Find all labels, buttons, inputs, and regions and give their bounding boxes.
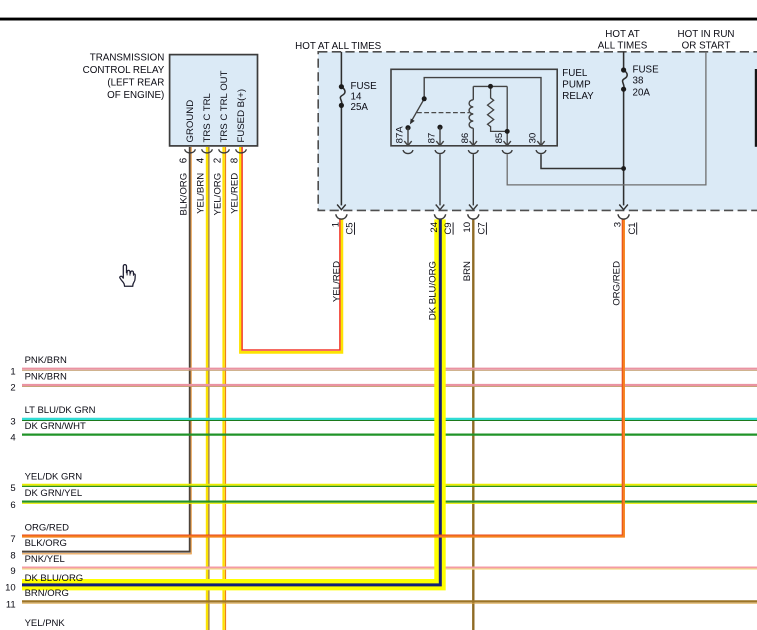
relay K1 fuel pump relay: outline box bbox=[391, 69, 557, 146]
svg-text:OF ENGINE): OF ENGINE) bbox=[107, 90, 164, 101]
relay resistor (parallel with coil) bbox=[488, 86, 508, 145]
svg-text:HOT AT ALL TIMES: HOT AT ALL TIMES bbox=[295, 41, 381, 52]
svg-text:OR START: OR START bbox=[682, 41, 731, 52]
svg-text:4: 4 bbox=[10, 432, 15, 443]
svg-text:DK BLU/ORG: DK BLU/ORG bbox=[428, 261, 439, 320]
mouse cursor (hand pointer) bbox=[120, 265, 135, 287]
wire BRN (connector C7 down off page) bbox=[472, 219, 474, 630]
svg-text:30: 30 bbox=[528, 133, 539, 144]
svg-text:DK BLU/ORG: DK BLU/ORG bbox=[25, 573, 84, 584]
connector 3 C1 bbox=[618, 214, 629, 219]
wire YEL/BRN (pin 4) bbox=[206, 147, 208, 630]
svg-text:DK GRN/WHT: DK GRN/WHT bbox=[25, 421, 86, 432]
svg-text:HOT AT: HOT AT bbox=[605, 29, 639, 40]
wire 4 DK GRN/WHT bbox=[22, 433, 757, 435]
wire: relay pin 85 to HOT IN RUN OR START feed bbox=[507, 52, 706, 185]
wire 11 BRN/ORG bbox=[22, 600, 757, 602]
svg-text:TRS C TRL: TRS C TRL bbox=[202, 92, 213, 142]
svg-text:YEL/DK GRN: YEL/DK GRN bbox=[25, 471, 83, 482]
connector 24 C9 bbox=[434, 214, 445, 219]
svg-text:6: 6 bbox=[179, 157, 190, 163]
svg-text:24: 24 bbox=[429, 221, 440, 232]
svg-text:8: 8 bbox=[10, 551, 15, 562]
svg-text:(LEFT REAR: (LEFT REAR bbox=[107, 78, 164, 89]
svg-text:YEL/RED: YEL/RED bbox=[230, 173, 241, 214]
svg-text:C9: C9 bbox=[443, 222, 454, 234]
relay pin 87A lead bbox=[405, 125, 410, 130]
svg-text:14: 14 bbox=[351, 91, 362, 102]
wire 9 PNK/YEL bbox=[22, 567, 757, 569]
wire 1 PNK/BRN bbox=[22, 368, 757, 370]
svg-text:38: 38 bbox=[633, 76, 644, 87]
svg-text:C5: C5 bbox=[345, 222, 356, 234]
wire YEL/ORG (pin 2) bbox=[222, 147, 224, 630]
svg-text:25A: 25A bbox=[351, 102, 369, 113]
svg-text:ORG/RED: ORG/RED bbox=[612, 261, 623, 306]
connector 1 C5 bbox=[336, 214, 347, 219]
svg-text:YEL/RED: YEL/RED bbox=[332, 261, 343, 302]
svg-text:FUSED B(+): FUSED B(+) bbox=[236, 89, 247, 143]
wire: relay pin 30 to fuse 38 junction bbox=[541, 154, 624, 168]
svg-text:DK GRN/YEL: DK GRN/YEL bbox=[25, 488, 83, 499]
svg-text:3: 3 bbox=[10, 417, 15, 428]
svg-text:8: 8 bbox=[230, 157, 241, 163]
svg-text:87: 87 bbox=[427, 133, 438, 144]
wire 5 YEL/DK GRN bbox=[22, 484, 757, 486]
connector terminals pins 6 4 2 8 bbox=[185, 149, 196, 153]
svg-text:FUSE: FUSE bbox=[351, 81, 378, 92]
svg-text:7: 7 bbox=[10, 534, 15, 545]
svg-text:YEL/ORG: YEL/ORG bbox=[212, 173, 223, 216]
svg-text:85: 85 bbox=[494, 133, 505, 144]
svg-text:2: 2 bbox=[213, 158, 224, 163]
wire 2 PNK/BRN bbox=[22, 384, 757, 386]
svg-text:BLK/ORG: BLK/ORG bbox=[25, 538, 67, 549]
svg-text:1: 1 bbox=[330, 222, 341, 227]
relay pin terminal cups bbox=[403, 150, 413, 153]
svg-text:PUMP: PUMP bbox=[562, 80, 591, 91]
power distribution box (HOT AT ALL TIMES / HOT IN RUN OR START) bbox=[318, 52, 757, 211]
svg-text:CONTROL RELAY: CONTROL RELAY bbox=[83, 65, 165, 76]
svg-text:YEL/PNK: YEL/PNK bbox=[25, 618, 66, 629]
svg-text:LT BLU/DK GRN: LT BLU/DK GRN bbox=[25, 405, 96, 416]
relay pin 30 arrow bbox=[537, 141, 544, 146]
svg-text:GROUND: GROUND bbox=[185, 100, 196, 143]
svg-text:YEL/BRN: YEL/BRN bbox=[196, 173, 207, 214]
wire 6 DK GRN/YEL bbox=[22, 501, 757, 503]
fuse F38 (FUSE 38 20A) bbox=[623, 52, 628, 206]
svg-text:PNK/BRN: PNK/BRN bbox=[25, 355, 67, 366]
svg-text:20A: 20A bbox=[633, 88, 651, 99]
svg-text:C1: C1 bbox=[627, 222, 638, 234]
svg-text:TRANSMISSION: TRANSMISSION bbox=[90, 53, 165, 64]
svg-text:9: 9 bbox=[10, 566, 15, 577]
wire 10 DK BLU/ORG highlighted (connector C9 down and left) bbox=[22, 219, 440, 584]
relay pin 87 lead bbox=[437, 125, 442, 130]
svg-text:FUEL: FUEL bbox=[562, 68, 588, 79]
svg-text:5: 5 bbox=[10, 483, 15, 494]
svg-text:FUSE: FUSE bbox=[633, 65, 660, 76]
svg-text:TRS C TRL OUT: TRS C TRL OUT bbox=[219, 70, 230, 142]
svg-text:ORG/RED: ORG/RED bbox=[25, 522, 69, 533]
svg-text:BLK/ORG: BLK/ORG bbox=[178, 173, 189, 216]
svg-text:BRN/ORG: BRN/ORG bbox=[25, 588, 69, 599]
svg-text:RELAY: RELAY bbox=[562, 91, 594, 102]
svg-text:2: 2 bbox=[10, 383, 15, 394]
svg-text:11: 11 bbox=[6, 600, 16, 611]
svg-text:3: 3 bbox=[613, 222, 624, 227]
fuse F14 (FUSE 14 25A) bbox=[340, 52, 345, 206]
relay actuator dashed link bbox=[417, 112, 469, 114]
svg-text:HOT IN RUN: HOT IN RUN bbox=[678, 29, 735, 40]
svg-text:6: 6 bbox=[10, 500, 15, 511]
svg-text:BRN: BRN bbox=[462, 261, 473, 281]
junction node: pin 30 / fuse 38 bbox=[621, 166, 626, 171]
svg-text:86: 86 bbox=[460, 133, 471, 144]
connector: transmission control relay box bbox=[170, 55, 258, 146]
svg-text:87A: 87A bbox=[395, 126, 406, 144]
relay coil (pins 86-85) bbox=[469, 86, 507, 145]
wire YEL/RED fused B+ (connector C5 to pin 8) bbox=[240, 147, 342, 352]
svg-text:10: 10 bbox=[462, 222, 473, 233]
wire 8 BLK/ORG (turns up to pin 6) bbox=[22, 147, 190, 552]
partial relay box at right edge bbox=[755, 69, 757, 147]
wire: relay pin 87 down to connector C9 bbox=[439, 154, 441, 205]
svg-text:PNK/YEL: PNK/YEL bbox=[25, 554, 65, 565]
svg-text:ALL TIMES: ALL TIMES bbox=[598, 41, 648, 52]
svg-text:1: 1 bbox=[10, 366, 15, 377]
svg-text:4: 4 bbox=[196, 157, 207, 163]
connector 10 C7 bbox=[468, 214, 479, 219]
svg-text:C7: C7 bbox=[477, 222, 488, 234]
svg-text:PNK/BRN: PNK/BRN bbox=[25, 371, 67, 382]
wire 3 LT BLU/DK GRN bbox=[22, 418, 757, 420]
svg-text:10: 10 bbox=[5, 582, 16, 593]
wire 7 ORG/RED (connector C1 down and left) bbox=[22, 219, 624, 536]
relay switch (pin 30 rail + movable arm to 87A) bbox=[412, 78, 541, 146]
wire: relay pin 86 down to connector C7 bbox=[472, 154, 474, 205]
